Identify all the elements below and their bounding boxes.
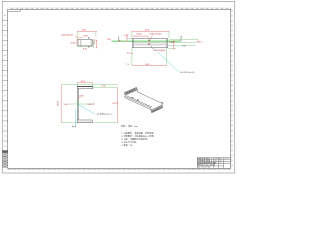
svg-text:34.94: 34.94 <box>136 34 142 36</box>
svg-text:A4: A4 <box>214 162 216 165</box>
svg-text:25.40: 25.40 <box>70 42 76 44</box>
svg-text:A-A: A-A <box>72 124 77 128</box>
svg-text:34.75: 34.75 <box>113 103 119 105</box>
svg-text:2-M2.5X0.45: 2-M2.5X0.45 <box>150 34 163 36</box>
svg-text:4-Ø 180°(±0.05): 4-Ø 180°(±0.05) <box>180 72 195 74</box>
svg-text:2-Ø2.20(M3): 2-Ø2.20(M3) <box>153 50 165 52</box>
svg-text:1:1: 1:1 <box>219 163 222 165</box>
svg-text:45.08: 45.08 <box>57 100 59 106</box>
svg-text:15.24: 15.24 <box>94 38 96 44</box>
svg-text:4-M2.5X0.45: 4-M2.5X0.45 <box>61 34 74 36</box>
svg-text:15.24: 15.24 <box>169 42 175 44</box>
